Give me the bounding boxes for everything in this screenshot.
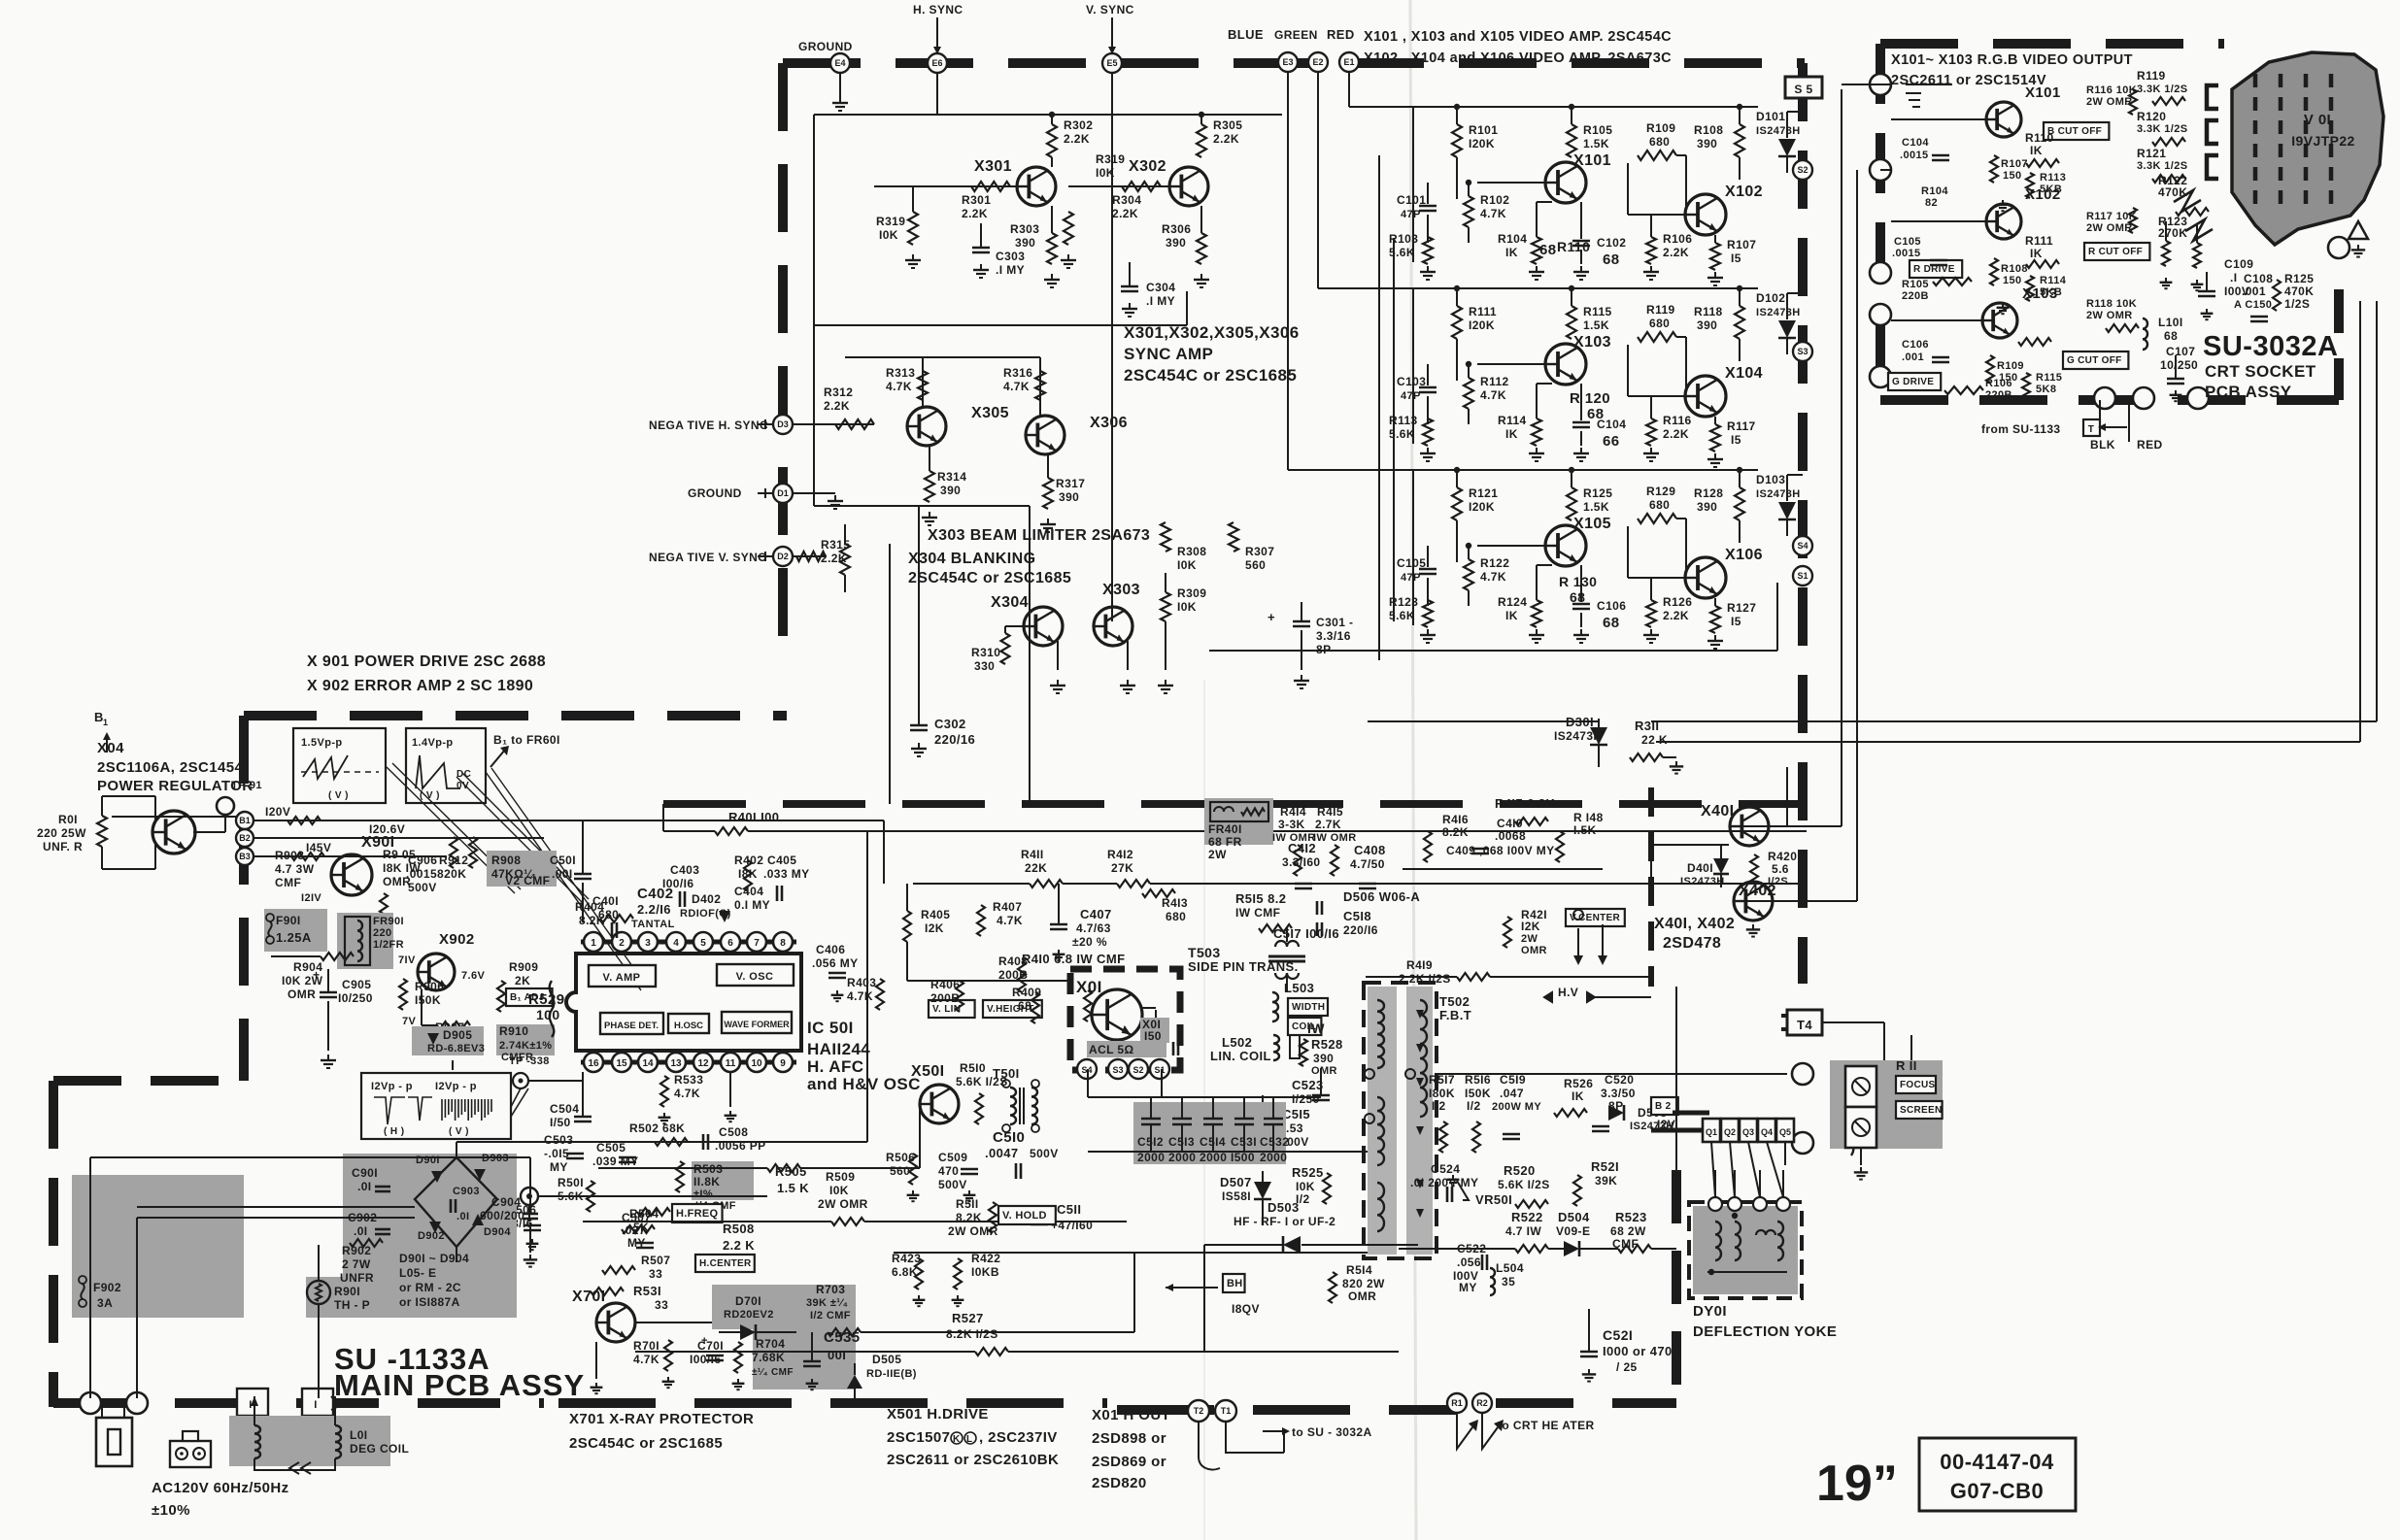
- svg-text:12: 12: [697, 1058, 709, 1069]
- svg-text:1: 1: [103, 718, 108, 727]
- svg-text:D102: D102: [1756, 291, 1785, 305]
- svg-text:2000: 2000: [1200, 1151, 1227, 1164]
- svg-text:R 130: R 130: [1559, 574, 1597, 589]
- svg-text:C106: C106: [1597, 599, 1626, 613]
- svg-text:R5I7: R5I7: [1429, 1073, 1455, 1087]
- svg-text:T50I: T50I: [993, 1066, 1020, 1081]
- svg-text:MY: MY: [550, 1160, 568, 1174]
- svg-text:TP -338: TP -338: [509, 1055, 550, 1067]
- svg-text:±¹⁄₄ CMF: ±¹⁄₄ CMF: [752, 1367, 794, 1378]
- svg-text:R319: R319: [1096, 152, 1125, 166]
- svg-text:X102 , X104 and X106 VIDEO: X102 , X104 and X106 VIDEO AMP. 2SA673C: [1364, 50, 1672, 66]
- svg-text:C102: C102: [1597, 236, 1626, 250]
- svg-text:E2: E2: [1312, 57, 1323, 67]
- svg-text:R70I: R70I: [633, 1339, 659, 1353]
- svg-text:22 K: 22 K: [1641, 733, 1668, 747]
- svg-text:R105: R105: [1902, 279, 1929, 290]
- svg-text:R4I2: R4I2: [1107, 848, 1133, 861]
- svg-text:0.I MY: 0.I MY: [734, 898, 770, 912]
- svg-text:±20 %: ±20 %: [1072, 935, 1107, 949]
- svg-text:IW OMR: IW OMR: [1313, 832, 1357, 844]
- svg-text:UNF. R: UNF. R: [43, 840, 83, 854]
- svg-text:15: 15: [616, 1058, 627, 1069]
- svg-text:FR90I: FR90I: [373, 916, 404, 927]
- svg-text:7V: 7V: [402, 1016, 417, 1027]
- svg-text:I2IV: I2IV: [301, 892, 321, 904]
- svg-text:R4I7 6.8K: R4I7 6.8K: [1495, 796, 1555, 811]
- svg-text:±I%: ±I%: [693, 1188, 713, 1200]
- svg-text:G CUT OFF: G CUT OFF: [2067, 355, 2122, 366]
- svg-text:1.25A: 1.25A: [276, 930, 312, 945]
- svg-text:R111: R111: [2025, 234, 2053, 248]
- svg-text:R910: R910: [499, 1024, 528, 1038]
- svg-text:I50K: I50K: [1465, 1087, 1491, 1100]
- svg-text:33: 33: [649, 1267, 662, 1281]
- svg-text:R115: R115: [2036, 372, 2062, 384]
- svg-text:I0KB: I0KB: [971, 1265, 999, 1279]
- svg-text:S1: S1: [1154, 1065, 1165, 1075]
- svg-text:150: 150: [2003, 170, 2022, 182]
- svg-text:D507: D507: [1220, 1175, 1252, 1189]
- svg-text:1.5K: 1.5K: [1583, 137, 1609, 151]
- svg-text:I8QV: I8QV: [1232, 1302, 1260, 1316]
- svg-text:L503: L503: [1284, 981, 1314, 995]
- svg-text:680: 680: [1649, 135, 1670, 149]
- svg-text:68: 68: [1018, 999, 1031, 1013]
- svg-text:F902: F902: [93, 1281, 121, 1294]
- svg-text:MY: MY: [1459, 1281, 1477, 1294]
- svg-text:I20V: I20V: [265, 805, 290, 819]
- svg-text:R102: R102: [1480, 193, 1509, 207]
- svg-text:SCREEN: SCREEN: [1900, 1105, 1942, 1116]
- svg-text:C505: C505: [596, 1141, 625, 1155]
- svg-text:IW: IW: [1307, 1021, 1325, 1036]
- svg-text:3.3K 1/2S: 3.3K 1/2S: [2137, 84, 2188, 95]
- svg-text:820K: 820K: [437, 867, 466, 881]
- svg-text:R121: R121: [1469, 486, 1498, 500]
- svg-text:RD-6.8EV3: RD-6.8EV3: [427, 1043, 485, 1055]
- svg-text:IS2473H: IS2473H: [1756, 125, 1801, 137]
- svg-text:R108: R108: [2001, 263, 2028, 275]
- svg-text:TP-91: TP-91: [231, 780, 262, 791]
- svg-text:11: 11: [726, 1058, 736, 1069]
- svg-text:to SU - 3032A: to SU - 3032A: [1292, 1425, 1372, 1439]
- svg-text:H.CENTER: H.CENTER: [699, 1258, 752, 1269]
- svg-text:R5I0: R5I0: [960, 1061, 986, 1075]
- svg-text:BH: BH: [1227, 1278, 1243, 1289]
- svg-text:X40I: X40I: [1701, 803, 1735, 820]
- svg-text:C503: C503: [544, 1133, 573, 1147]
- svg-text:4.7/63: 4.7/63: [1076, 921, 1111, 935]
- svg-text:2.2K: 2.2K: [824, 399, 850, 413]
- svg-text:00-4147-04: 00-4147-04: [1940, 1450, 2054, 1474]
- svg-text:3.3/50: 3.3/50: [1601, 1087, 1636, 1100]
- svg-text:TH - P: TH - P: [334, 1298, 370, 1312]
- svg-text:IK: IK: [2030, 144, 2043, 157]
- svg-text:3.3K 1/2S: 3.3K 1/2S: [2137, 160, 2188, 172]
- svg-text:R105: R105: [1583, 123, 1612, 137]
- svg-text:5KB: 5KB: [2040, 184, 2062, 195]
- svg-text:R119: R119: [2137, 69, 2166, 83]
- svg-text:D70I: D70I: [735, 1294, 761, 1308]
- svg-text:7IV: 7IV: [398, 954, 416, 966]
- svg-text:R4I5: R4I5: [1317, 805, 1343, 819]
- svg-text:GROUND: GROUND: [798, 40, 853, 53]
- svg-text:I0K: I0K: [879, 228, 898, 242]
- svg-text:R108: R108: [1694, 123, 1723, 137]
- svg-text:I.5K: I.5K: [1573, 823, 1597, 837]
- svg-text:H. AFC: H. AFC: [807, 1057, 863, 1076]
- svg-text:T4: T4: [1797, 1018, 1812, 1032]
- svg-text:R109: R109: [1646, 121, 1675, 135]
- svg-text:D101: D101: [1756, 110, 1785, 123]
- svg-text:ACL 5Ω: ACL 5Ω: [1089, 1043, 1133, 1056]
- svg-text:C5I2: C5I2: [1137, 1135, 1164, 1149]
- svg-text:S1: S1: [1797, 571, 1808, 581]
- svg-text:I500: I500: [1231, 1151, 1255, 1164]
- svg-text:R303: R303: [1010, 222, 1039, 236]
- svg-text:68: 68: [2164, 329, 2178, 343]
- svg-text:R522: R522: [1511, 1210, 1543, 1224]
- svg-text:I80K: I80K: [1429, 1087, 1455, 1100]
- svg-text:C101: C101: [1397, 193, 1426, 207]
- svg-text:RED: RED: [1327, 27, 1355, 42]
- svg-text:3A: 3A: [97, 1296, 113, 1310]
- svg-text:C301 -: C301 -: [1316, 616, 1353, 629]
- svg-text:10/250: 10/250: [2160, 358, 2198, 372]
- svg-text:C5I5: C5I5: [1282, 1107, 1310, 1122]
- svg-text:DY0I: DY0I: [1693, 1303, 1727, 1320]
- svg-text:4.7K: 4.7K: [886, 380, 912, 393]
- svg-text:R116: R116: [1663, 414, 1692, 427]
- svg-text:R305: R305: [1213, 118, 1242, 132]
- svg-text:1.5K: 1.5K: [1583, 500, 1609, 514]
- svg-text:R101: R101: [1469, 123, 1498, 137]
- svg-text:S3: S3: [1112, 1065, 1123, 1075]
- svg-text:C5I4: C5I4: [1200, 1135, 1226, 1149]
- svg-text:BLK: BLK: [2090, 438, 2115, 452]
- svg-text:C4I0: C4I0: [1497, 817, 1523, 830]
- svg-text:and H&V OSC: and H&V OSC: [807, 1075, 921, 1093]
- svg-text:I5: I5: [1731, 251, 1741, 265]
- svg-text:IS2473H: IS2473H: [1756, 488, 1801, 500]
- svg-text:T1: T1: [1221, 1406, 1232, 1416]
- svg-text:22K: 22K: [1025, 861, 1047, 875]
- svg-text:R4I4: R4I4: [1280, 805, 1306, 819]
- svg-text:E3: E3: [1282, 57, 1293, 67]
- svg-text:7.68K: 7.68K: [752, 1351, 785, 1364]
- svg-text:B 2: B 2: [1655, 1101, 1672, 1112]
- svg-text:UNFR: UNFR: [340, 1271, 374, 1285]
- svg-text:R II: R II: [1896, 1058, 1917, 1073]
- svg-text:C303: C303: [996, 250, 1025, 263]
- svg-text:C105: C105: [1397, 556, 1426, 570]
- svg-text:8.2K: 8.2K: [1442, 825, 1469, 839]
- svg-text:.001: .001: [1902, 352, 1924, 363]
- svg-text:IS2473H: IS2473H: [1756, 307, 1801, 318]
- svg-text:R104: R104: [1498, 232, 1527, 246]
- svg-text:.0I: .0I: [357, 1180, 372, 1193]
- svg-text:C403: C403: [670, 863, 699, 877]
- svg-text:.53: .53: [1286, 1122, 1303, 1135]
- svg-text:R40I I00: R40I I00: [728, 810, 779, 824]
- svg-text:WAVE FORMER: WAVE FORMER: [724, 1020, 790, 1029]
- svg-text:R306: R306: [1162, 222, 1191, 236]
- svg-text:3-3K: 3-3K: [1278, 818, 1305, 831]
- svg-text:G DRIVE: G DRIVE: [1892, 377, 1934, 387]
- svg-text:+: +: [313, 968, 320, 982]
- svg-text:CMF: CMF: [275, 876, 301, 889]
- svg-text:5KB: 5KB: [2040, 286, 2062, 298]
- svg-text:R520: R520: [1504, 1163, 1536, 1178]
- svg-text:L0I: L0I: [350, 1428, 368, 1442]
- svg-text:2.2K: 2.2K: [1064, 132, 1090, 146]
- svg-text:S4: S4: [1797, 541, 1808, 551]
- svg-text:330: 330: [974, 659, 995, 673]
- svg-text:D40I: D40I: [1687, 861, 1713, 875]
- svg-text:F.B.T: F.B.T: [1439, 1008, 1471, 1022]
- svg-text:R420: R420: [1768, 850, 1797, 863]
- svg-text:R120: R120: [2137, 110, 2166, 123]
- svg-text:R704: R704: [756, 1337, 785, 1351]
- svg-text:L10I: L10I: [2158, 316, 2183, 329]
- svg-text:R119: R119: [1646, 303, 1675, 317]
- svg-text:I00/I6: I00/I6: [662, 877, 693, 890]
- svg-text:35: 35: [1502, 1275, 1515, 1289]
- svg-text:R525: R525: [1292, 1165, 1324, 1180]
- svg-text:R528: R528: [1311, 1037, 1343, 1052]
- svg-text:560: 560: [890, 1164, 910, 1178]
- svg-text:I20K: I20K: [1469, 500, 1495, 514]
- svg-text:V2 CMF: V2 CMF: [505, 874, 550, 887]
- svg-text:R502 68K: R502 68K: [629, 1122, 685, 1135]
- svg-text:390: 390: [1166, 236, 1186, 250]
- svg-text:2W: 2W: [1208, 848, 1227, 861]
- svg-text:I50: I50: [1144, 1029, 1162, 1043]
- svg-text:R508: R508: [723, 1222, 755, 1236]
- svg-text:R I48: R I48: [1573, 811, 1604, 824]
- svg-text:NEGA TIVE H. SYNC: NEGA TIVE H. SYNC: [649, 418, 768, 432]
- svg-text:4: 4: [673, 938, 679, 949]
- svg-text:A C150: A C150: [2234, 299, 2272, 311]
- svg-text:C107: C107: [2166, 345, 2195, 358]
- svg-text:R CUT OFF: R CUT OFF: [2088, 247, 2143, 257]
- svg-text:220: 220: [373, 927, 392, 939]
- svg-text:TANTAL: TANTAL: [631, 919, 675, 930]
- svg-text:IK: IK: [2030, 247, 2043, 260]
- svg-text:R127: R127: [1727, 601, 1756, 615]
- svg-text:4.7K: 4.7K: [1480, 207, 1506, 220]
- svg-text:R90I: R90I: [334, 1285, 360, 1298]
- svg-text:14: 14: [642, 1058, 654, 1069]
- svg-text:2SC2611 or 2SC1514V: 2SC2611 or 2SC1514V: [1891, 73, 2046, 88]
- svg-text:.0I 200V MY: .0I 200V MY: [1410, 1176, 1478, 1189]
- svg-text:X40I, X402: X40I, X402: [1654, 916, 1735, 932]
- svg-text:.I MY: .I MY: [1146, 294, 1175, 308]
- svg-text:±10%: ±10%: [152, 1502, 190, 1519]
- svg-text:C5I7 I00/I6: C5I7 I00/I6: [1273, 926, 1339, 941]
- svg-text:4.7K: 4.7K: [847, 989, 873, 1003]
- svg-text:2SC454C or 2SC1685: 2SC454C or 2SC1685: [1124, 366, 1297, 385]
- svg-text:3: 3: [645, 938, 651, 949]
- svg-text:X101: X101: [1573, 152, 1611, 169]
- svg-text:2.2K: 2.2K: [1663, 609, 1689, 622]
- svg-text:47P: 47P: [1401, 572, 1421, 584]
- svg-text:IK: IK: [1505, 427, 1518, 441]
- svg-text:R106: R106: [1663, 232, 1692, 246]
- svg-text:I/2: I/2: [1432, 1099, 1446, 1113]
- svg-text:D503: D503: [1268, 1200, 1300, 1215]
- svg-text:2.2K: 2.2K: [962, 207, 988, 220]
- svg-text:R110: R110: [2025, 131, 2054, 145]
- svg-text:R909: R909: [509, 960, 538, 974]
- svg-text:Q5: Q5: [1779, 1127, 1791, 1137]
- svg-text:D1: D1: [777, 488, 789, 498]
- svg-text:2SD898 or: 2SD898 or: [1092, 1430, 1166, 1447]
- svg-text:2SC454C or 2SC1685: 2SC454C or 2SC1685: [569, 1435, 723, 1452]
- svg-text:R110: R110: [1557, 239, 1590, 254]
- svg-text:27K: 27K: [1111, 861, 1133, 875]
- svg-text:POWER REGULATOR: POWER REGULATOR: [97, 778, 253, 794]
- svg-text:R50I: R50I: [558, 1176, 584, 1189]
- svg-text:Q2: Q2: [1724, 1127, 1736, 1137]
- svg-text:270K: 270K: [2158, 226, 2187, 240]
- svg-text:X101~ X103 R.G.B VIDEO OUTP: X101~ X103 R.G.B VIDEO OUTPUT: [1891, 52, 2133, 68]
- svg-text:2: 2: [619, 938, 625, 949]
- svg-text:GROUND: GROUND: [688, 486, 742, 500]
- svg-text:C104: C104: [1902, 137, 1929, 149]
- svg-text:R703: R703: [816, 1283, 845, 1296]
- svg-text:CRT SOCKET: CRT SOCKET: [2205, 362, 2316, 381]
- svg-text:R125: R125: [2284, 272, 2314, 285]
- svg-text:C532: C532: [1260, 1135, 1289, 1149]
- svg-text:PCB ASSY: PCB ASSY: [2205, 383, 2292, 401]
- svg-text:2SC1507: 2SC1507: [887, 1429, 950, 1446]
- svg-text:MAIN PCB ASSY: MAIN PCB ASSY: [334, 1368, 585, 1402]
- svg-text:R903: R903: [275, 849, 304, 862]
- svg-text:+47/I60: +47/I60: [1051, 1219, 1093, 1232]
- svg-text:R533: R533: [674, 1073, 703, 1087]
- svg-text:68: 68: [1570, 589, 1585, 605]
- svg-text:, 2SC237IV: , 2SC237IV: [979, 1429, 1058, 1446]
- svg-text:C520: C520: [1605, 1073, 1634, 1087]
- svg-text:4.7 3W: 4.7 3W: [275, 862, 315, 876]
- svg-text:2W OMR: 2W OMR: [818, 1197, 868, 1211]
- svg-text:C52I: C52I: [1603, 1327, 1633, 1343]
- svg-text:D2: D2: [777, 552, 789, 561]
- svg-text:R118: R118: [1694, 305, 1723, 318]
- svg-text:13: 13: [670, 1058, 682, 1069]
- svg-text:R314: R314: [937, 470, 966, 484]
- svg-text:IK: IK: [1505, 246, 1518, 259]
- svg-text:2.2 K: 2.2 K: [723, 1238, 755, 1253]
- svg-text:47P: 47P: [1401, 209, 1421, 220]
- svg-text:IK: IK: [1505, 609, 1518, 622]
- svg-text:X105: X105: [1573, 516, 1611, 532]
- svg-text:R3II: R3II: [1635, 719, 1659, 733]
- svg-text:R109: R109: [1997, 360, 2024, 372]
- svg-text:R906: R906: [415, 980, 444, 993]
- svg-text:R5II: R5II: [956, 1197, 979, 1211]
- svg-text:C903: C903: [453, 1186, 480, 1197]
- svg-text:X101: X101: [2025, 84, 2061, 101]
- svg-text:Q3: Q3: [1742, 1127, 1754, 1137]
- svg-text:IK: IK: [1572, 1089, 1584, 1103]
- svg-text:T2: T2: [1194, 1406, 1204, 1416]
- svg-text:I/2 CMF: I/2 CMF: [810, 1310, 851, 1322]
- svg-text:.0068: .0068: [1495, 829, 1526, 843]
- svg-text:820 2W: 820 2W: [1342, 1277, 1385, 1290]
- svg-text:I5: I5: [1731, 433, 1741, 447]
- svg-text:68 FR: 68 FR: [1208, 835, 1242, 849]
- svg-text:R302: R302: [1064, 118, 1093, 132]
- svg-text:E5: E5: [1106, 58, 1117, 68]
- svg-text:R310: R310: [971, 646, 1000, 659]
- svg-text:C103: C103: [1397, 375, 1426, 388]
- svg-text:R4I3: R4I3: [1162, 896, 1188, 910]
- svg-text:7.6V: 7.6V: [461, 970, 485, 982]
- svg-text:4.7/50: 4.7/50: [1350, 857, 1385, 871]
- svg-text:X50I: X50I: [911, 1063, 945, 1080]
- svg-text:D506 W06-A: D506 W06-A: [1343, 889, 1420, 904]
- svg-text:C405: C405: [767, 854, 796, 867]
- svg-text:C524: C524: [1431, 1162, 1460, 1176]
- svg-text:D504: D504: [1558, 1210, 1590, 1224]
- svg-text:I000 or 470: I000 or 470: [1603, 1344, 1673, 1358]
- svg-text:B₁ to FR60I: B₁ to FR60I: [493, 733, 560, 747]
- svg-text:I0/250: I0/250: [338, 991, 373, 1005]
- svg-text:VR50I: VR50I: [1475, 1192, 1512, 1207]
- svg-text:8.2K: 8.2K: [956, 1211, 982, 1224]
- svg-text:PHASE DET.: PHASE DET.: [604, 1021, 659, 1031]
- svg-text:8: 8: [780, 938, 786, 949]
- svg-text:5: 5: [700, 938, 706, 949]
- svg-text:R118 10K: R118 10K: [2086, 298, 2137, 310]
- svg-text:R114: R114: [2040, 275, 2067, 286]
- svg-text:R304: R304: [1112, 193, 1141, 207]
- svg-text:I8K: I8K: [738, 867, 758, 881]
- svg-text:500V: 500V: [1030, 1147, 1059, 1160]
- svg-text:+: +: [701, 1335, 708, 1347]
- svg-text:D505: D505: [872, 1353, 901, 1366]
- svg-text:600/200: 600/200: [480, 1209, 524, 1222]
- svg-text:FR40I: FR40I: [1208, 822, 1242, 836]
- svg-text:82: 82: [1925, 197, 1938, 209]
- svg-text:V 0I: V 0I: [2304, 112, 2331, 128]
- svg-text:I9VJTP22: I9VJTP22: [2291, 133, 2354, 149]
- svg-text:R405: R405: [921, 908, 950, 921]
- svg-text:R52I: R52I: [1591, 1159, 1619, 1174]
- svg-text:R422: R422: [971, 1252, 1000, 1265]
- svg-text:R5I6: R5I6: [1465, 1073, 1491, 1087]
- svg-text:X102: X102: [1725, 184, 1763, 200]
- svg-text:C105: C105: [1894, 236, 1921, 248]
- svg-text:L504: L504: [1496, 1261, 1524, 1275]
- svg-text:X304 BLANKING: X304 BLANKING: [908, 551, 1035, 567]
- svg-text:H.OSC: H.OSC: [674, 1021, 703, 1031]
- svg-text:II.8K: II.8K: [693, 1175, 720, 1188]
- svg-text:6: 6: [727, 938, 733, 949]
- svg-text:2SD478: 2SD478: [1663, 935, 1721, 952]
- svg-text:R527: R527: [952, 1311, 984, 1325]
- svg-text:R125: R125: [1583, 486, 1612, 500]
- svg-text:R 120: R 120: [1570, 390, 1610, 407]
- svg-text:R529: R529: [528, 991, 564, 1008]
- svg-text:200W MY: 200W MY: [1492, 1101, 1541, 1113]
- svg-text:100: 100: [536, 1007, 560, 1022]
- svg-text:R5I4: R5I4: [1346, 1263, 1372, 1277]
- svg-text:R319: R319: [876, 215, 905, 228]
